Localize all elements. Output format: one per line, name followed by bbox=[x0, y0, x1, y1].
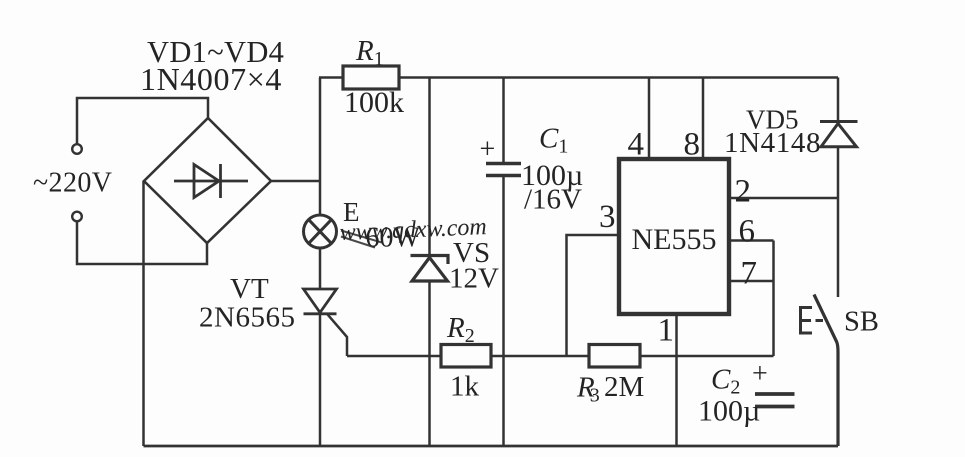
svg-text:4: 4 bbox=[628, 127, 645, 163]
diode VD5 1N4148 bbox=[820, 122, 858, 147]
terminal 1 bbox=[72, 144, 82, 154]
svg-text:6: 6 bbox=[739, 214, 756, 250]
transistor VT thyristor 2N6565 bbox=[304, 289, 337, 314]
svg-text:1k: 1k bbox=[450, 371, 480, 403]
wire pin 7 bbox=[729, 280, 774, 283]
wire C1 to bottom rail bbox=[502, 177, 505, 446]
svg-text:3: 3 bbox=[599, 199, 616, 235]
wire pin 1 to bottom rail bbox=[675, 314, 678, 446]
capacitor C1 bbox=[486, 164, 521, 176]
wire lamp to thyristor bbox=[319, 248, 322, 289]
svg-text:/16V: /16V bbox=[524, 184, 582, 216]
wire timing node horizontal (gate-R2-R3-C2) bbox=[347, 355, 774, 358]
wire pin 6 bbox=[729, 239, 774, 242]
resistor R3 bbox=[589, 345, 640, 368]
zener diode VS bbox=[411, 256, 449, 282]
wire pins 6-7 junction down to timing node bbox=[772, 241, 775, 357]
svg-text:+: + bbox=[752, 359, 768, 390]
svg-text:100k: 100k bbox=[344, 86, 404, 119]
switch SB bbox=[801, 295, 839, 447]
bridge rectifier VD1~VD4 bbox=[144, 118, 271, 243]
wire bottom rail bbox=[144, 445, 839, 448]
wire left vertical from top rail to lamp bbox=[319, 78, 322, 216]
pointer line from lamp to 60W label bbox=[341, 231, 382, 248]
svg-text:R1: R1 bbox=[355, 35, 384, 70]
wire VS branch vertical top bbox=[428, 78, 431, 256]
svg-text:R2: R2 bbox=[446, 312, 475, 347]
svg-text:100µ: 100µ bbox=[698, 395, 760, 428]
svg-text:1N4148: 1N4148 bbox=[724, 127, 821, 159]
wire thyristor cathode to bottom rail bbox=[319, 314, 322, 446]
svg-text:NE555: NE555 bbox=[632, 223, 717, 256]
wire VS to bottom rail bbox=[428, 281, 431, 446]
lamp E bbox=[304, 215, 337, 248]
wire bridge left vertex to bottom rail bbox=[142, 181, 145, 446]
svg-text:SB: SB bbox=[844, 307, 879, 338]
wire pin 3 bbox=[567, 235, 620, 356]
svg-text:7: 7 bbox=[741, 256, 758, 292]
svg-text:C1: C1 bbox=[539, 123, 568, 158]
wire VD5 to pin2 node and switch bbox=[837, 147, 840, 297]
resistor R2 bbox=[441, 345, 491, 368]
svg-text:R3: R3 bbox=[576, 372, 600, 407]
wire terminal 2 to bridge bottom vertex bbox=[77, 222, 207, 265]
wire top rail right segment (R1 right to VD5 branch) bbox=[398, 76, 838, 79]
svg-text:60W: 60W bbox=[366, 223, 421, 254]
svg-text:2: 2 bbox=[735, 174, 752, 210]
wire bridge top vertex to terminal 1 bbox=[77, 98, 208, 145]
wire C1 branch vertical top bbox=[502, 78, 505, 163]
wire pin 2 to VD5 branch bbox=[729, 197, 838, 200]
svg-text:12V: 12V bbox=[449, 263, 499, 295]
op-amp U1 NE555 bbox=[619, 159, 729, 314]
resistor R1 bbox=[343, 66, 399, 89]
terminal 2 bbox=[72, 212, 82, 222]
wire pin 8 to top rail bbox=[702, 78, 705, 160]
svg-text:C2: C2 bbox=[711, 364, 740, 399]
wire from bridge right vertex to lamp branch bbox=[271, 180, 320, 183]
svg-text:VT: VT bbox=[230, 273, 269, 305]
svg-text:8: 8 bbox=[684, 127, 701, 163]
wire thyristor gate bbox=[327, 314, 347, 356]
wire top rail left segment (R1 left to corner) bbox=[319, 76, 344, 79]
svg-text:+: + bbox=[480, 134, 496, 165]
wire VD5 branch from top rail bbox=[837, 78, 840, 122]
svg-text:~220V: ~220V bbox=[33, 168, 112, 199]
wire pin 4 to top rail bbox=[648, 78, 651, 160]
svg-text:2M: 2M bbox=[604, 371, 644, 403]
svg-text:1: 1 bbox=[658, 313, 675, 349]
bridge internal diode bbox=[174, 164, 248, 198]
svg-text:1N4007×4: 1N4007×4 bbox=[140, 61, 282, 97]
capacitor C2 bbox=[755, 394, 795, 407]
svg-text:2N6565: 2N6565 bbox=[199, 302, 295, 334]
svg-text:E: E bbox=[343, 197, 360, 227]
